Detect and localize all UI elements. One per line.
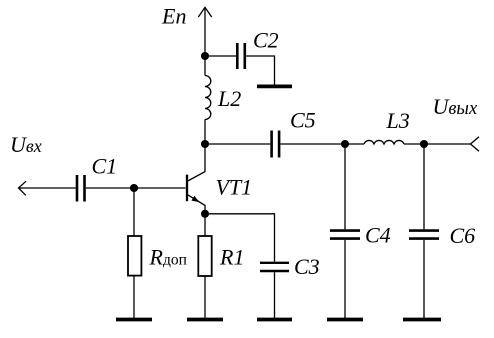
node C4 junction bbox=[341, 140, 349, 148]
svg-text:Uвых: Uвых bbox=[433, 94, 478, 119]
capacitor C6 bbox=[409, 144, 439, 318]
node C6 junction bbox=[420, 140, 428, 148]
svg-text:C5: C5 bbox=[290, 108, 316, 133]
wire collector node to C5 bbox=[205, 143, 270, 145]
ground (R1) bbox=[187, 318, 223, 322]
svg-text:C2: C2 bbox=[253, 27, 279, 52]
wire node to Rdop bbox=[133, 188, 135, 236]
wire Rdop to ground bbox=[133, 276, 135, 318]
svg-text:VT1: VT1 bbox=[216, 175, 253, 200]
wire node to C2 bbox=[205, 55, 236, 57]
supply rail En arrow bbox=[198, 7, 211, 56]
svg-text:C6: C6 bbox=[450, 223, 476, 248]
svg-text:L3: L3 bbox=[386, 108, 410, 133]
svg-text:R1: R1 bbox=[219, 244, 244, 269]
ground (C3) bbox=[257, 318, 292, 322]
svg-text:C4: C4 bbox=[365, 223, 391, 248]
svg-text:C3: C3 bbox=[294, 254, 320, 279]
wire R1 to ground bbox=[204, 276, 206, 318]
inductor L2 bbox=[205, 56, 211, 144]
svg-text:Rдоп: Rдоп bbox=[149, 244, 187, 269]
inductor L3 bbox=[345, 140, 424, 144]
node supply junction bbox=[201, 52, 209, 60]
capacitor C5 bbox=[272, 131, 280, 158]
wire C3 to ground bbox=[274, 272, 276, 318]
svg-text:Uвх: Uвх bbox=[10, 132, 42, 157]
capacitor C2 bbox=[237, 43, 245, 69]
resistor Rdop bbox=[128, 236, 141, 276]
node emitter junction bbox=[201, 210, 209, 218]
wire emitter to R1 bbox=[204, 214, 206, 236]
ground (C2) bbox=[257, 85, 292, 89]
ground (C6) bbox=[403, 318, 441, 322]
svg-text:L2: L2 bbox=[217, 86, 241, 111]
svg-text:C1: C1 bbox=[92, 153, 118, 178]
node collector junction bbox=[201, 140, 209, 148]
wire C1 to base bbox=[86, 187, 186, 189]
output wire and terminal arrow bbox=[424, 137, 479, 152]
transistor VT1 bbox=[187, 144, 205, 214]
wire emitter to C3 bbox=[205, 214, 275, 262]
capacitor C3 bbox=[260, 263, 289, 271]
capacitor C4 bbox=[330, 144, 360, 318]
resistor R1 bbox=[198, 236, 211, 276]
ground (C4) bbox=[327, 318, 363, 322]
ground (Rdop) bbox=[116, 318, 152, 322]
capacitor C1 bbox=[77, 175, 85, 202]
wire C5 to node C bbox=[280, 143, 345, 145]
node base junction bbox=[130, 184, 138, 192]
svg-text:En: En bbox=[161, 4, 186, 29]
wire C2 to ground bbox=[246, 56, 274, 85]
input terminal arrow bbox=[19, 181, 76, 195]
